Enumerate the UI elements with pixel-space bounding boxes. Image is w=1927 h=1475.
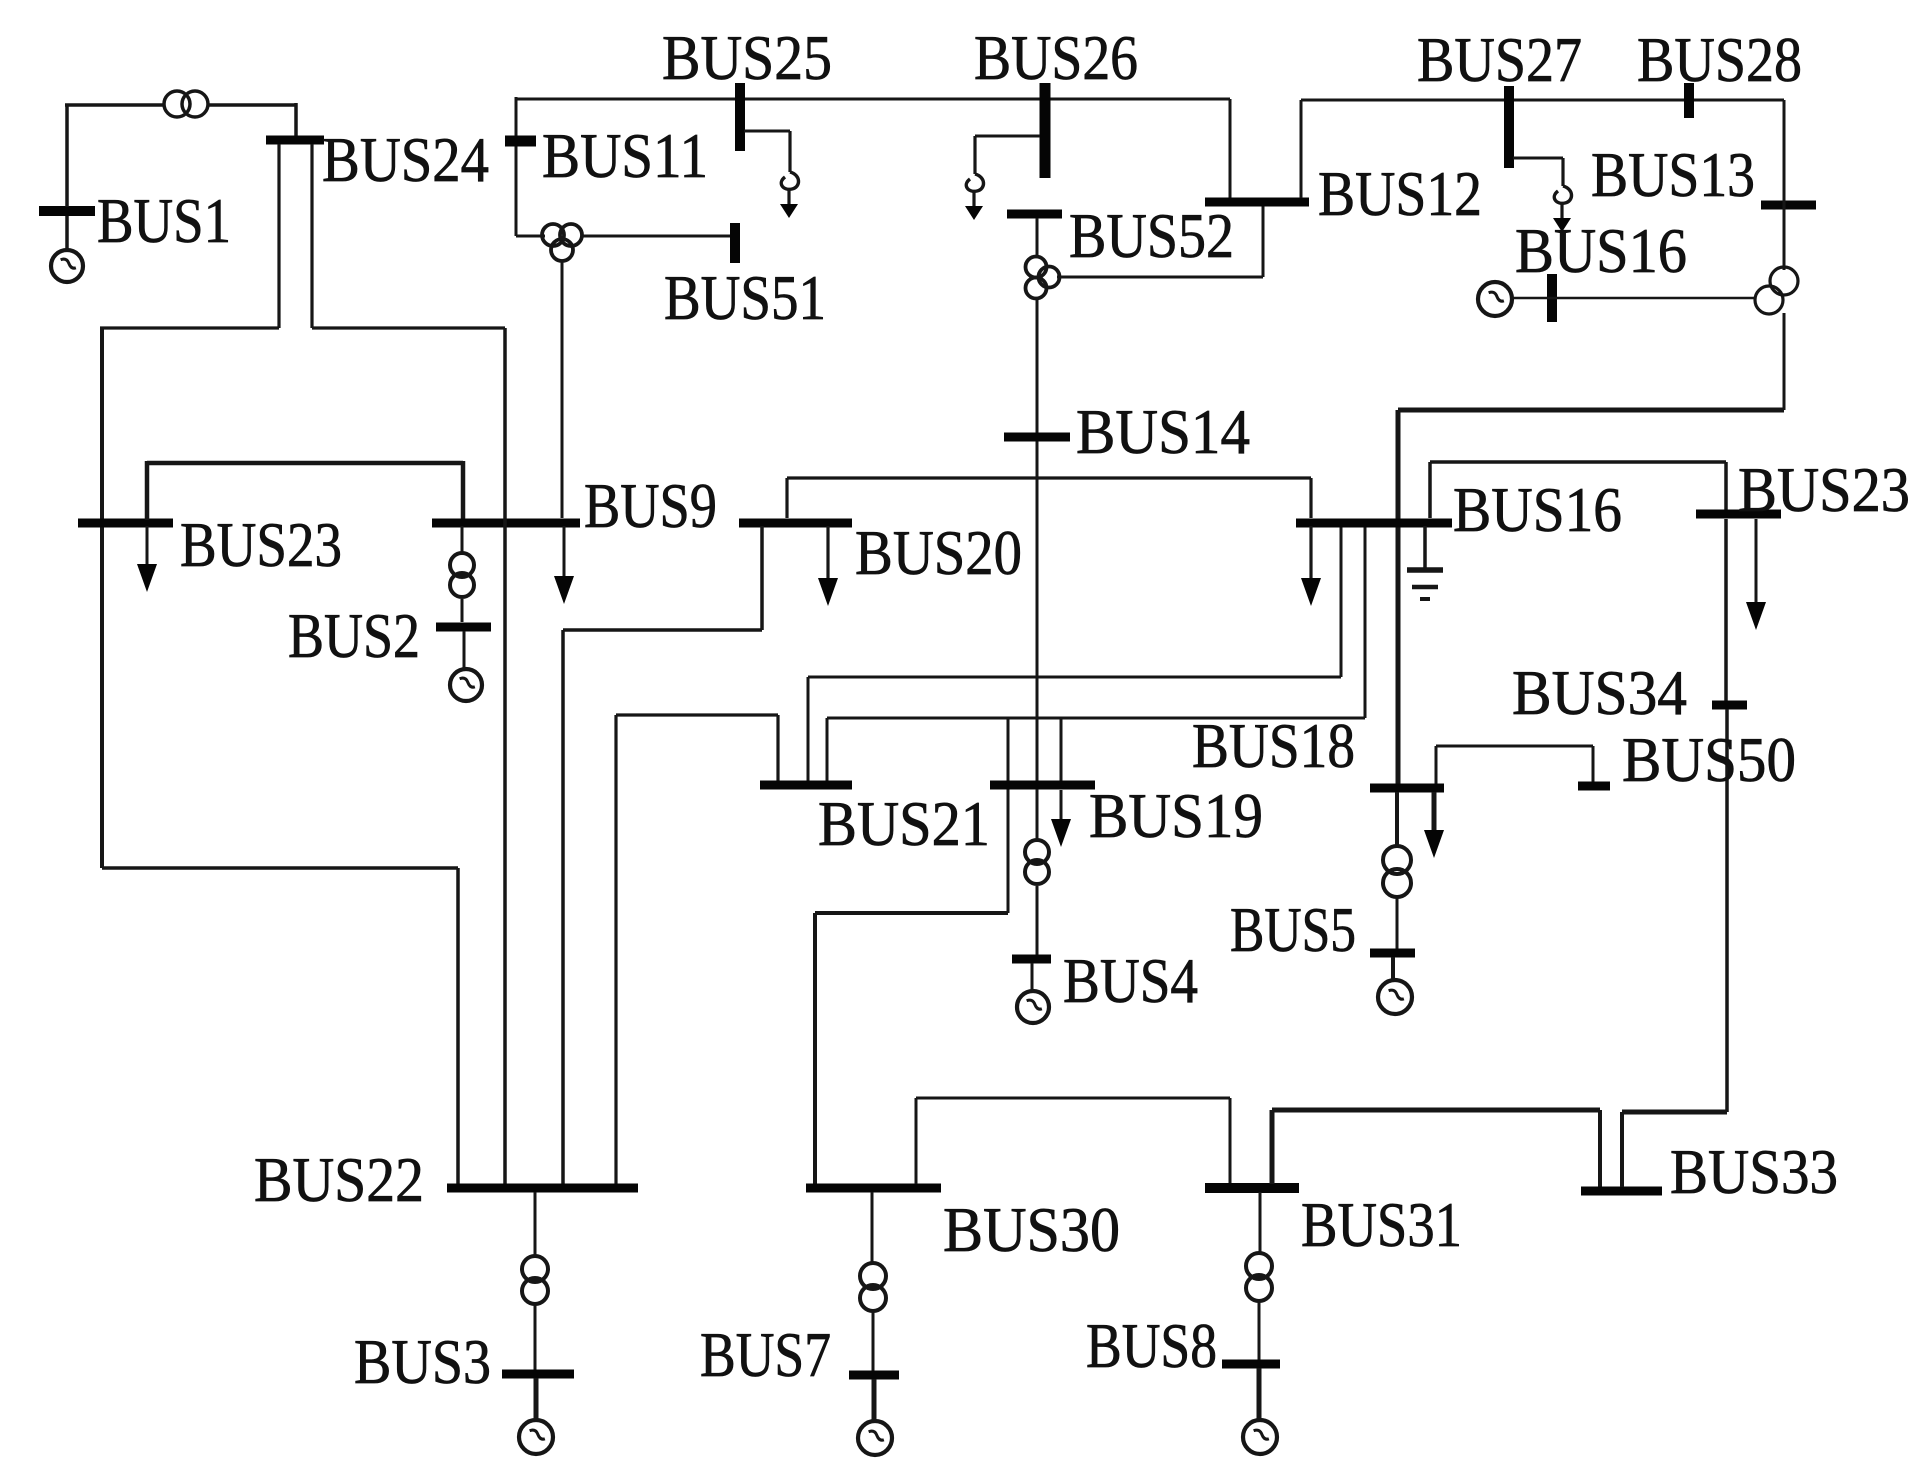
svg-text:BUS7: BUS7 bbox=[700, 1319, 831, 1390]
svg-text:BUS21: BUS21 bbox=[818, 788, 990, 859]
svg-text:BUS20: BUS20 bbox=[855, 517, 1022, 588]
svg-text:BUS4: BUS4 bbox=[1063, 945, 1198, 1016]
svg-text:BUS19: BUS19 bbox=[1089, 780, 1263, 851]
svg-text:BUS14: BUS14 bbox=[1076, 396, 1250, 467]
svg-text:BUS12: BUS12 bbox=[1318, 158, 1482, 229]
svg-text:BUS23: BUS23 bbox=[180, 509, 342, 580]
svg-text:BUS2: BUS2 bbox=[288, 600, 420, 671]
svg-text:BUS34: BUS34 bbox=[1512, 657, 1687, 728]
svg-text:BUS33: BUS33 bbox=[1670, 1136, 1838, 1207]
svg-text:BUS31: BUS31 bbox=[1301, 1189, 1462, 1260]
svg-text:BUS50: BUS50 bbox=[1622, 724, 1796, 795]
svg-text:BUS22: BUS22 bbox=[254, 1144, 424, 1215]
svg-text:BUS30: BUS30 bbox=[943, 1194, 1120, 1265]
svg-text:BUS28: BUS28 bbox=[1637, 24, 1802, 95]
svg-text:BUS16: BUS16 bbox=[1453, 474, 1622, 545]
svg-text:BUS8: BUS8 bbox=[1086, 1310, 1217, 1381]
svg-text:BUS51: BUS51 bbox=[664, 262, 826, 333]
svg-text:BUS1: BUS1 bbox=[97, 185, 231, 256]
svg-text:BUS11: BUS11 bbox=[542, 120, 708, 191]
svg-text:BUS9: BUS9 bbox=[584, 470, 717, 541]
svg-text:BUS27: BUS27 bbox=[1417, 24, 1582, 95]
svg-text:BUS24: BUS24 bbox=[322, 124, 489, 195]
svg-text:BUS52: BUS52 bbox=[1069, 200, 1234, 271]
svg-text:BUS25: BUS25 bbox=[662, 22, 832, 93]
svg-text:BUS16: BUS16 bbox=[1515, 215, 1687, 286]
svg-text:BUS13: BUS13 bbox=[1591, 139, 1755, 210]
svg-text:BUS23: BUS23 bbox=[1738, 454, 1910, 525]
svg-text:BUS5: BUS5 bbox=[1230, 894, 1356, 965]
svg-text:BUS26: BUS26 bbox=[974, 22, 1138, 93]
svg-text:BUS18: BUS18 bbox=[1192, 710, 1355, 781]
svg-text:BUS3: BUS3 bbox=[354, 1326, 491, 1397]
